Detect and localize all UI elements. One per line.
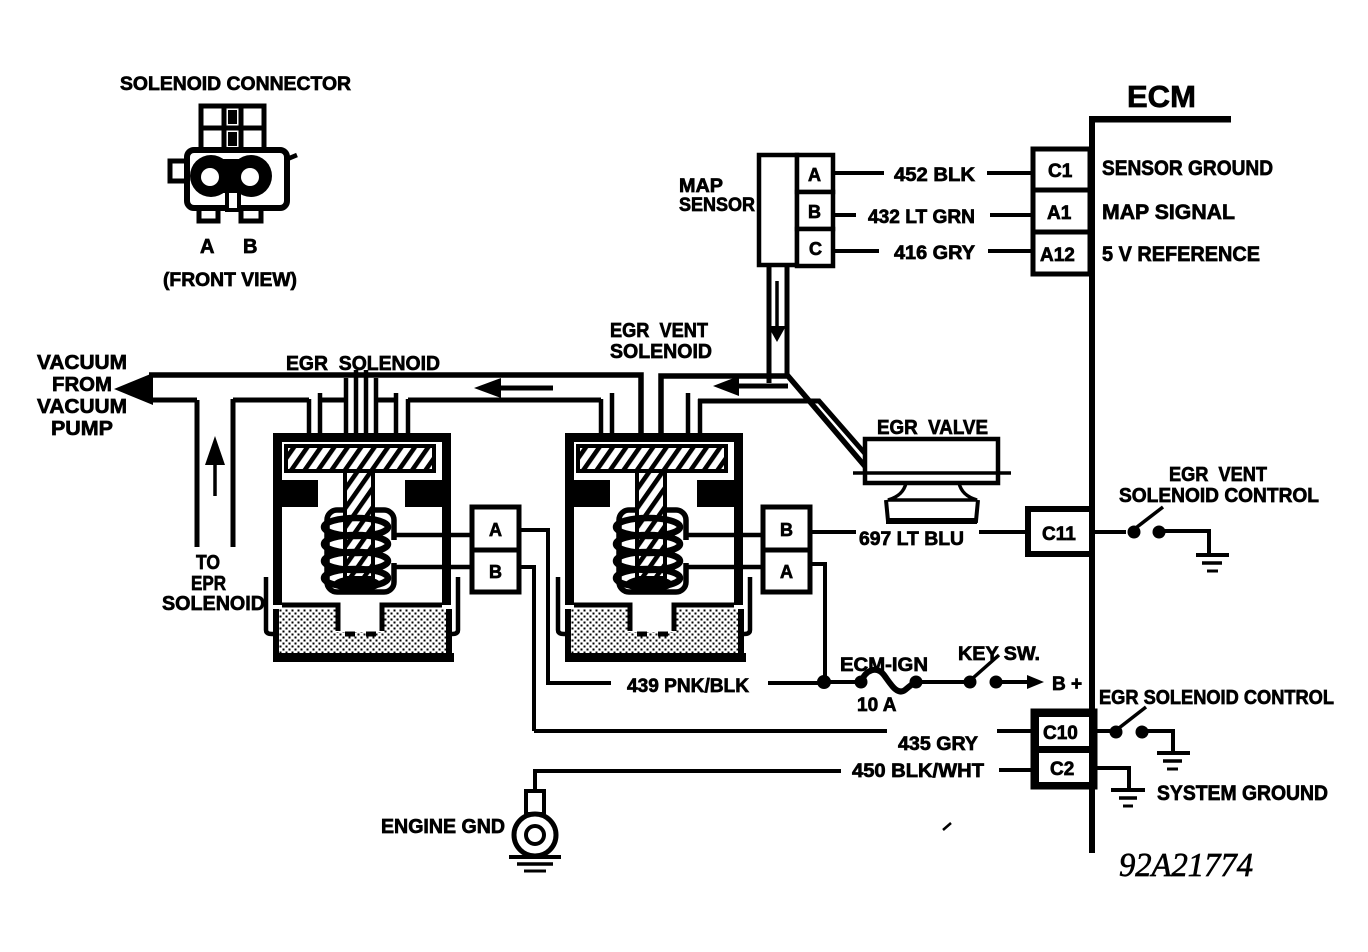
svg-text:C10: C10 [1043, 723, 1078, 744]
svg-text:EGR SOLENOID: EGR SOLENOID [286, 352, 440, 375]
svg-text:A: A [808, 165, 821, 185]
svg-text:ECM-IGN: ECM-IGN [840, 655, 928, 676]
svg-text:439 PNK/BLK: 439 PNK/BLK [627, 676, 749, 697]
svg-text:PUMP: PUMP [51, 417, 113, 440]
svg-text:EGR VALVE: EGR VALVE [877, 417, 988, 439]
svg-text:EGR VENT: EGR VENT [610, 319, 708, 342]
svg-text:VACUUM: VACUUM [37, 395, 127, 418]
svg-text:C2: C2 [1050, 759, 1074, 780]
svg-text:416 GRY: 416 GRY [894, 243, 975, 264]
svg-text:B +: B + [1052, 674, 1082, 695]
svg-text:5 V REFERENCE: 5 V REFERENCE [1102, 243, 1260, 266]
svg-text:452 BLK: 452 BLK [894, 165, 975, 186]
svg-text:MAP SIGNAL: MAP SIGNAL [1102, 201, 1235, 224]
svg-text:FROM: FROM [52, 373, 112, 396]
svg-text:(FRONT VIEW): (FRONT VIEW) [163, 270, 297, 291]
svg-text:A1: A1 [1047, 203, 1072, 224]
svg-text:C: C [809, 239, 822, 259]
svg-text:SENSOR GROUND: SENSOR GROUND [1102, 157, 1273, 180]
svg-text:A: A [780, 562, 793, 582]
svg-text:697 LT BLU: 697 LT BLU [859, 529, 964, 550]
svg-text:B: B [808, 202, 821, 222]
svg-text:A: A [489, 520, 502, 540]
svg-text:TO: TO [196, 551, 220, 574]
svg-text:92A21774: 92A21774 [1119, 847, 1253, 884]
svg-text:B: B [243, 236, 257, 258]
svg-text:KEY SW.: KEY SW. [958, 644, 1040, 665]
svg-text:SENSOR: SENSOR [679, 195, 755, 216]
svg-text:EGR VENT: EGR VENT [1169, 464, 1267, 486]
svg-text:SOLENOID: SOLENOID [610, 340, 712, 363]
svg-text:VACUUM: VACUUM [37, 351, 127, 374]
svg-text:SYSTEM GROUND: SYSTEM GROUND [1157, 782, 1328, 805]
svg-text:C1: C1 [1048, 161, 1073, 182]
svg-text:10 A: 10 A [857, 695, 897, 716]
svg-text:B: B [780, 520, 793, 540]
svg-text:ENGINE GND: ENGINE GND [381, 816, 505, 838]
svg-text:C11: C11 [1042, 524, 1076, 545]
svg-text:SOLENOID CONNECTOR: SOLENOID CONNECTOR [120, 74, 351, 95]
svg-text:432 LT GRN: 432 LT GRN [868, 207, 975, 228]
svg-text:450 BLK/WHT: 450 BLK/WHT [852, 761, 984, 782]
svg-text:SOLENOID CONTROL: SOLENOID CONTROL [1119, 485, 1319, 507]
svg-text:ECM: ECM [1127, 79, 1196, 114]
svg-text:MAP: MAP [679, 176, 723, 197]
svg-text:A12: A12 [1040, 245, 1075, 266]
svg-text:EGR SOLENOID CONTROL: EGR SOLENOID CONTROL [1099, 687, 1334, 709]
svg-text:SOLENOID: SOLENOID [162, 592, 265, 615]
svg-text:B: B [489, 562, 502, 582]
svg-text:435 GRY: 435 GRY [898, 734, 978, 755]
svg-text:A: A [200, 236, 214, 258]
